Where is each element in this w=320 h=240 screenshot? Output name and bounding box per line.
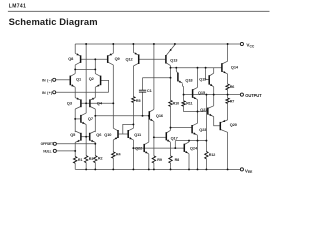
svg-text:R1: R1 [78,158,83,162]
svg-text:Q10: Q10 [104,132,111,137]
svg-text:R2: R2 [98,156,103,160]
svg-text:Q14: Q14 [231,65,239,70]
svg-text:Schematic Diagram: Schematic Diagram [9,16,98,27]
svg-text:IN (−): IN (−) [42,78,53,82]
svg-text:Q16: Q16 [156,113,164,118]
svg-text:R10: R10 [173,102,180,106]
svg-text:R6: R6 [230,85,235,89]
svg-text:Q24: Q24 [190,145,198,150]
svg-text:VEE: VEE [245,168,253,174]
svg-text:R5: R5 [136,99,141,103]
svg-text:Q17: Q17 [171,136,178,141]
svg-text:VCC: VCC [246,43,254,49]
svg-text:Q13: Q13 [170,57,178,62]
svg-text:R3: R3 [89,157,94,161]
svg-text:R9: R9 [157,158,162,162]
svg-text:Q11: Q11 [134,132,142,137]
svg-text:R8: R8 [175,158,180,162]
svg-text:IN (+): IN (+) [42,91,53,95]
svg-text:Q15: Q15 [198,90,206,95]
svg-text:Q22: Q22 [135,146,143,151]
svg-text:Q20: Q20 [230,122,237,127]
svg-text:Q23: Q23 [199,127,207,132]
svg-text:OUTPUT: OUTPUT [245,93,262,98]
svg-text:R11: R11 [186,101,192,105]
svg-text:Q19: Q19 [199,77,207,82]
svg-text:Q18: Q18 [185,78,193,83]
svg-text:LM741: LM741 [9,4,26,10]
svg-text:Q12: Q12 [126,56,134,61]
svg-text:R12: R12 [209,153,216,157]
svg-text:Q21: Q21 [200,107,208,112]
svg-text:OFFSET: OFFSET [41,142,53,146]
svg-text:R7: R7 [230,100,235,104]
svg-text:NULL: NULL [43,149,51,153]
svg-text:Q7: Q7 [88,116,93,121]
